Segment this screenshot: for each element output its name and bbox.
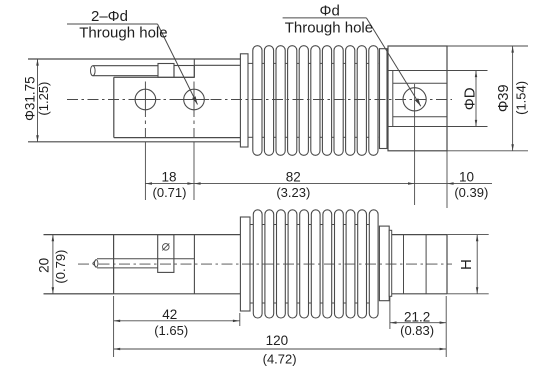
svg-text:(1.65): (1.65) (154, 323, 188, 338)
cable gland (bottom view) (158, 235, 174, 273)
svg-text:82: 82 (286, 170, 301, 185)
extension line collar right down (389, 296, 391, 329)
svg-text:20: 20 (36, 258, 51, 273)
dim 120 line (114, 348, 447, 350)
extension line collar left down (239, 313, 241, 326)
right body inner top line (393, 82, 447, 84)
svg-text:2–Φd: 2–Φd (91, 8, 128, 25)
cable end cap (91, 66, 96, 76)
cable tube (93, 66, 158, 76)
main centerline (top view) (67, 99, 452, 101)
dim H line (476, 235, 479, 294)
svg-text:H: H (458, 259, 475, 270)
dim Φ39 extension bottom (447, 150, 528, 152)
bottom block left edge (113, 235, 115, 294)
dim 10 line (415, 182, 492, 185)
svg-text:(0.83): (0.83) (400, 323, 434, 338)
left block bottom edge (114, 137, 241, 139)
hole 1 cross (130, 82, 160, 138)
bellows rings (top view) (253, 46, 378, 156)
dim 20 extension bottom (44, 293, 114, 295)
bellows valley lines (bottom view) (250, 225, 369, 304)
dim 18 line (145, 182, 194, 185)
svg-text:ΦD: ΦD (462, 87, 479, 110)
left block left edge (113, 77, 115, 137)
dim ΦD extension top (447, 70, 488, 72)
cable gland box 2 (174, 66, 194, 78)
bottom cable tip (93, 260, 97, 268)
leader Φd (283, 18, 421, 106)
cable gland box 1 (158, 64, 174, 78)
extension line block right down (445, 296, 447, 357)
main centerline (bottom view) (78, 263, 452, 265)
svg-text:(1.54): (1.54) (514, 81, 529, 115)
svg-text:Φ39: Φ39 (496, 84, 512, 112)
svg-text:10: 10 (459, 170, 474, 185)
bellows right collar (top view) (380, 49, 388, 149)
dim 42 line (114, 320, 240, 323)
right body flat bottom edge (388, 126, 447, 128)
dim Φ31.75 line (36, 59, 39, 142)
svg-text:(1.25): (1.25) (36, 82, 51, 116)
dim 21.2 line (390, 321, 446, 324)
dim H extension bottom (447, 293, 489, 295)
dim H extension top (447, 234, 489, 236)
bellows right collar (bottom view) (379, 226, 389, 301)
right body flat top edge (388, 70, 447, 72)
hole 2 cross (179, 82, 209, 138)
extension line hole1 down (144, 142, 146, 200)
right body inner bottom line (393, 116, 447, 118)
extension line right hole down (414, 84, 416, 205)
dim 82 line (194, 182, 415, 185)
bellows left collar (bottom view) (240, 217, 250, 311)
bellows rings (bottom view) (253, 210, 378, 318)
svg-text:18: 18 (161, 170, 176, 185)
extension line hole2 down (193, 142, 195, 200)
top view body top outline (28, 58, 240, 60)
step edge at connector right (193, 59, 195, 77)
dim ΦD extension bottom (447, 126, 488, 128)
extension line right body edge down (446, 151, 448, 208)
svg-text:(4.72): (4.72) (263, 352, 297, 367)
bottom right block inner line 2 (425, 235, 427, 294)
left hole 1 (135, 89, 156, 110)
dim 20 extension top (44, 234, 114, 236)
svg-text:Through hole: Through hole (79, 25, 167, 42)
svg-text:120: 120 (266, 333, 289, 348)
svg-text:42: 42 (162, 307, 177, 322)
svg-text:(0.71): (0.71) (153, 185, 187, 200)
extension line block left down (113, 296, 115, 357)
bottom cable tube (97, 259, 194, 268)
dim 20 line (52, 235, 55, 294)
right hole (403, 88, 426, 111)
dim Φ39 line (511, 46, 514, 151)
gland diameter mark (162, 243, 169, 250)
bottom block right edge (193, 235, 195, 294)
upper inner line to collar (194, 64, 240, 66)
bottom right block right edge (446, 235, 448, 294)
right collar step (bottom view) (389, 230, 392, 296)
bottom cable cap (95, 260, 98, 268)
bellows left collar (240, 54, 248, 147)
bottom view top outline left (44, 234, 241, 236)
svg-text:Φd: Φd (320, 2, 340, 19)
right body inner left edge (392, 71, 394, 127)
bottom right block top (392, 234, 447, 236)
right body outline (388, 46, 447, 151)
svg-text:(0.79): (0.79) (53, 250, 68, 284)
top view body bottom outline (28, 141, 240, 143)
svg-text:Through hole: Through hole (285, 19, 373, 36)
dim Φ31.75 extension top (28, 58, 38, 60)
left block top edge (114, 76, 195, 78)
bottom right block inner line 1 (403, 235, 405, 294)
dim Φ39 extension top (447, 45, 528, 47)
bellows valley lines (top view) (248, 63, 380, 137)
svg-text:(0.39): (0.39) (454, 185, 488, 200)
leader 2-Φd (67, 24, 198, 105)
left hole 2 (184, 89, 205, 110)
dim ΦD line (475, 71, 477, 127)
svg-text:(3.23): (3.23) (276, 185, 310, 200)
bottom view bottom outline left (44, 293, 241, 295)
bottom right block bottom (392, 293, 447, 295)
